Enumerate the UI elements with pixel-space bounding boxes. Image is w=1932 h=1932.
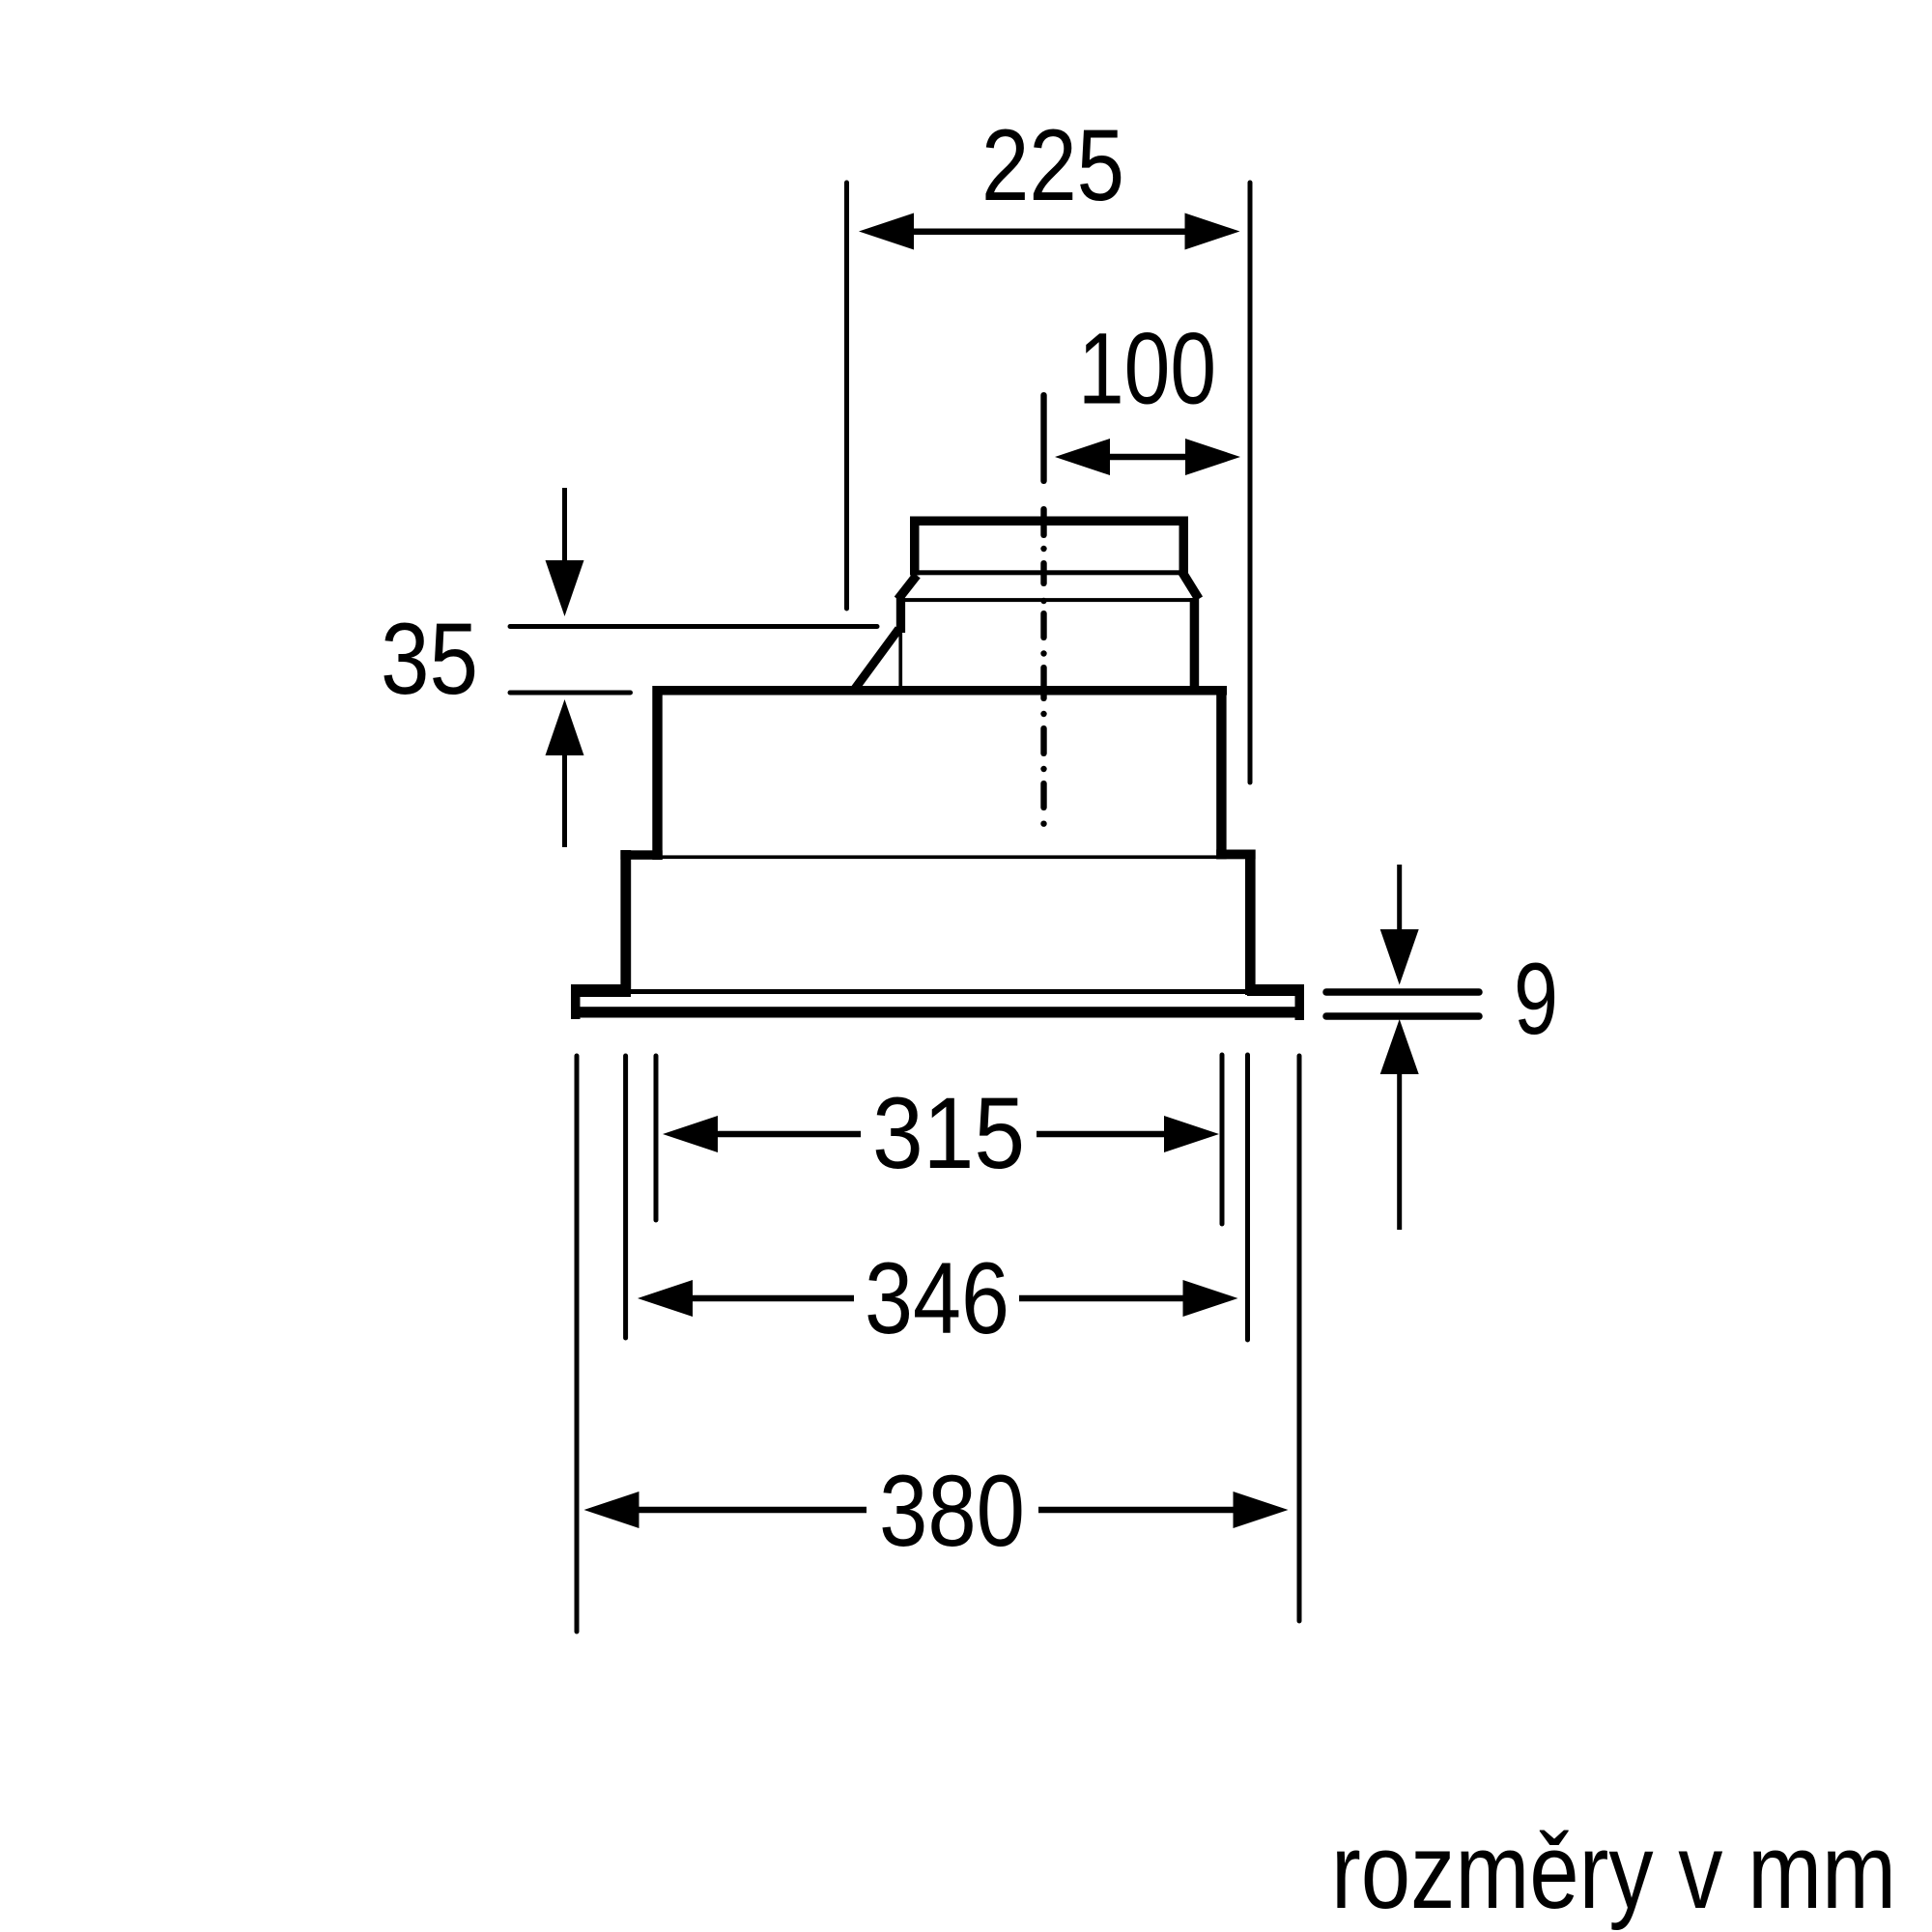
centerline dot 6 bbox=[1040, 821, 1046, 827]
dim 346 line left segment bbox=[690, 1295, 854, 1302]
lower box top edge bbox=[658, 855, 1245, 859]
centerline dot 1 bbox=[1040, 546, 1046, 552]
dim 35 lower reference line bbox=[510, 691, 631, 696]
dim 380 line left segment bbox=[636, 1507, 867, 1514]
main box left wall bbox=[652, 686, 662, 860]
dim 380 left extension line bbox=[575, 1056, 580, 1632]
dim 9 down arrowhead bbox=[1380, 929, 1419, 985]
centerline dash 7 bbox=[1040, 781, 1046, 810]
flange left edge bbox=[571, 984, 581, 1019]
svg-text:9: 9 bbox=[1514, 943, 1558, 1056]
centerline dot 4 bbox=[1040, 711, 1046, 717]
dim 380 right extension line bbox=[1297, 1056, 1302, 1621]
dim 315 right arrowhead bbox=[1164, 1116, 1219, 1152]
dim 100 left arrowhead bbox=[1055, 439, 1110, 475]
lower box left wall bbox=[620, 850, 631, 991]
duct collar rim left edge bbox=[910, 517, 920, 576]
dim 225 left arrowhead bbox=[859, 213, 914, 250]
dim 315 left extension line bbox=[654, 1056, 659, 1220]
dim 225 left extension line bbox=[844, 183, 849, 609]
duct collar rim top edge bbox=[910, 517, 1188, 526]
dim 346 left arrowhead bbox=[638, 1280, 693, 1317]
centerline dash 2 bbox=[1040, 506, 1046, 538]
svg-text:rozměry v mm: rozměry v mm bbox=[1331, 1812, 1896, 1931]
dim 315 left arrowhead bbox=[663, 1116, 718, 1152]
centerline dash 1 bbox=[1040, 392, 1046, 484]
centerline dash 5 bbox=[1040, 665, 1046, 701]
dim 346 right extension line bbox=[1245, 1055, 1250, 1340]
duct shoulder line bbox=[901, 598, 1195, 602]
dim 225 right extension line bbox=[1248, 183, 1253, 782]
dim 346 right arrowhead bbox=[1183, 1280, 1238, 1317]
dim 9 down arrow shaft bbox=[1397, 865, 1402, 939]
dim 9 up arrowhead bbox=[1380, 1019, 1419, 1074]
centerline dash 4 bbox=[1040, 611, 1046, 640]
centerline dash 3 bbox=[1040, 560, 1046, 586]
main box right wall bbox=[1216, 686, 1226, 859]
duct left taper bbox=[898, 576, 918, 600]
dim 35 up arrowhead bbox=[546, 699, 584, 755]
flange right edge bbox=[1295, 984, 1305, 1020]
duct collar rim right edge bbox=[1179, 517, 1189, 576]
dim 35 down arrowhead bbox=[546, 560, 584, 616]
flange top left band bbox=[571, 984, 631, 997]
hood slope diagonal bbox=[854, 629, 899, 691]
dim 35 upper reference line bbox=[510, 624, 877, 629]
svg-text:346: 346 bbox=[865, 1242, 1009, 1355]
duct right taper bbox=[1182, 573, 1199, 600]
dim 100 line bbox=[1107, 454, 1188, 461]
dim 380 left arrowhead bbox=[584, 1492, 639, 1528]
dim 380 right arrowhead bbox=[1234, 1492, 1289, 1528]
dim 35 down arrow shaft bbox=[562, 488, 567, 565]
dim 346 line right segment bbox=[1019, 1295, 1185, 1302]
flange bottom bbox=[571, 1007, 1304, 1017]
svg-text:100: 100 bbox=[1078, 313, 1216, 426]
dim 225 line bbox=[912, 229, 1186, 236]
dim 315 line right segment bbox=[1037, 1131, 1167, 1138]
lower box right wall bbox=[1245, 850, 1256, 996]
dim 315 right extension line bbox=[1220, 1055, 1225, 1224]
svg-text:225: 225 bbox=[981, 109, 1124, 222]
dim 380 line right segment bbox=[1038, 1507, 1236, 1514]
centerline dot 3 bbox=[1040, 650, 1046, 656]
flange top right band bbox=[1247, 984, 1304, 996]
svg-text:315: 315 bbox=[872, 1077, 1025, 1190]
dim 9 up arrow shaft bbox=[1397, 1074, 1402, 1230]
dim 346 left extension line bbox=[623, 1056, 628, 1338]
flange top middle line bbox=[631, 989, 1247, 994]
dim 9 lower reference line bbox=[1326, 1012, 1479, 1020]
centerline dash 6 bbox=[1040, 725, 1046, 756]
duct left wall hidden bbox=[898, 631, 902, 691]
main box top edge bbox=[653, 686, 1228, 696]
centerline dot 2 bbox=[1040, 598, 1046, 604]
dim 225 right arrowhead bbox=[1185, 213, 1240, 250]
dim 9 upper reference line bbox=[1326, 988, 1479, 996]
dim 35 up arrow shaft bbox=[562, 755, 567, 847]
centerline dot 5 bbox=[1040, 766, 1046, 772]
dim 315 line left segment bbox=[715, 1131, 861, 1138]
svg-text:35: 35 bbox=[381, 603, 478, 716]
duct left wall visible bbox=[896, 598, 905, 633]
svg-text:380: 380 bbox=[879, 1455, 1025, 1568]
duct collar rim bottom line bbox=[919, 570, 1179, 575]
right step bbox=[1216, 850, 1255, 860]
dim 100 right arrowhead bbox=[1185, 439, 1240, 475]
duct right wall bbox=[1190, 598, 1200, 693]
left step bbox=[620, 850, 662, 860]
